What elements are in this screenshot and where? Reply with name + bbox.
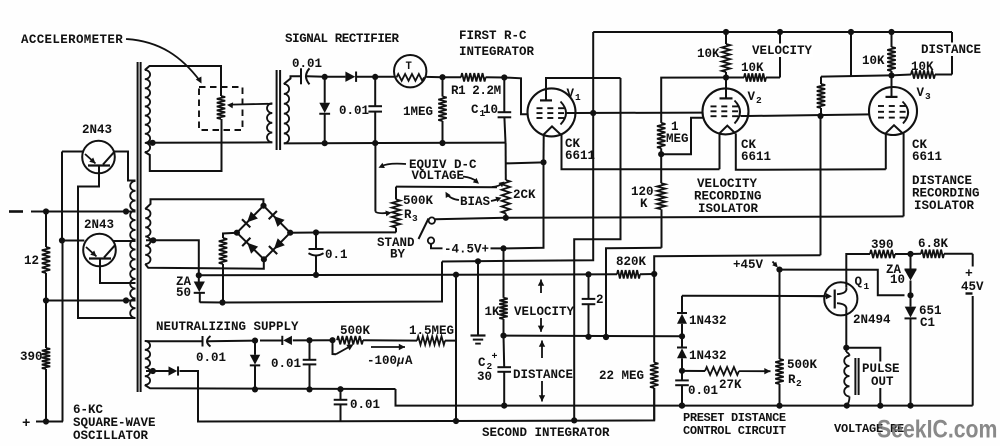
svg-text:FIRST R-C: FIRST R-C [459, 29, 527, 43]
svg-text:2N43: 2N43 [84, 218, 114, 232]
resistor 1.5MEG [417, 336, 445, 344]
svg-text:SeekIC.com: SeekIC.com [877, 415, 997, 443]
wire 456 vertical to 1.5MEG [455, 275, 457, 421]
capacitor 0.01 shunt2 [374, 77, 376, 106]
node cap2 bottom [585, 334, 591, 340]
svg-text:+45V: +45V [733, 258, 764, 272]
svg-text:500K: 500K [787, 358, 818, 372]
wire minus terminal stub [9, 210, 23, 213]
arrow bias line into 2CK top [492, 183, 503, 187]
node -4.5/1K [500, 245, 506, 251]
node bus217 2CK [503, 215, 509, 221]
wire V3 lead2 to bus217 [903, 133, 905, 216]
pulse out labels [861, 362, 902, 376]
svg-text:R1 2.2M: R1 2.2M [451, 84, 501, 98]
velocity annotation arrows [540, 280, 542, 294]
wire V2 plate to V3 grid [748, 114, 870, 116]
wire q1 base runup [682, 295, 825, 297]
wire 654 vertical [653, 274, 655, 337]
svg-text:10K: 10K [911, 60, 934, 74]
node bus275/456 [453, 272, 459, 278]
resistor 1MEG shunt [442, 77, 444, 96]
resistor 6.8K [921, 250, 944, 258]
transformer T1 winding accelerometer drive [145, 70, 150, 152]
svg-text:1N432: 1N432 [689, 349, 727, 363]
svg-text:VELOCITY: VELOCITY [752, 44, 813, 58]
svg-text:0.01: 0.01 [271, 357, 301, 371]
node 820K left [585, 271, 591, 277]
node 1MEG bottom [658, 151, 664, 157]
wire bus217 long [506, 216, 904, 217]
svg-text:R: R [404, 208, 412, 222]
diode bridge bottom-left [247, 243, 258, 254]
node on bottom line [322, 140, 328, 146]
wire winding tap to rectifier transformer [146, 141, 272, 143]
wire V1 cathode lead [543, 136, 545, 163]
svg-text:+: + [492, 352, 498, 363]
node 651 bottom [907, 403, 913, 409]
wire V2 plate cap [725, 78, 727, 99]
svg-text:-100: -100 [367, 354, 397, 368]
node R2 bottom [776, 403, 782, 409]
node 309 top [306, 337, 312, 343]
wire R3 bottom [316, 231, 396, 233]
node 390/6.8K [907, 251, 913, 257]
node 1K/C2 [500, 333, 506, 339]
resistor 820K [589, 273, 618, 275]
svg-text:10K: 10K [697, 47, 720, 61]
transformer T1 left winding [130, 181, 135, 318]
node junction 12/390 [43, 297, 49, 303]
svg-text:C: C [471, 103, 479, 117]
svg-text:ACCELEROMETER: ACCELEROMETER [21, 33, 123, 47]
wire switch common to bus217 [435, 218, 506, 219]
svg-text:22 MEG: 22 MEG [599, 369, 644, 383]
node V1 plate/bus [590, 110, 596, 116]
svg-text:390: 390 [871, 238, 894, 252]
svg-text:2N494: 2N494 [853, 313, 891, 327]
wire left column vertical [62, 241, 64, 422]
node junction at plus terminal [43, 418, 49, 424]
svg-text:MEG: MEG [666, 132, 689, 146]
node line336/604 [603, 334, 609, 340]
svg-text:+: + [22, 416, 30, 432]
svg-text:DISTANCE: DISTANCE [921, 43, 981, 57]
wire 820K node to V2 plate dropper [654, 255, 820, 273]
node bus302/resistor [219, 299, 225, 305]
wire ZA50 bottom to bus [200, 301, 223, 303]
svg-text:6611: 6611 [565, 149, 595, 163]
node bridge bottom [261, 256, 267, 262]
diode bridge top-left [247, 212, 258, 223]
wire tee to cathode junction [506, 162, 544, 163]
diode 1N432 lower [681, 336, 683, 348]
potentiometer 500K R3 [395, 228, 397, 233]
svg-text:2: 2 [796, 378, 802, 389]
wire distance takeoff [951, 32, 953, 75]
wire grid feed [504, 78, 528, 115]
tube V3 envelope [869, 87, 917, 135]
Q1 emitter arrow [789, 295, 826, 297]
svg-text:OSCILLATOR: OSCILLATOR [73, 429, 149, 443]
node bridge right [287, 230, 293, 236]
svg-text:INTEGRATOR: INTEGRATOR [459, 45, 535, 59]
diode bridge top-right [274, 216, 285, 227]
thermistor T circle [394, 55, 426, 87]
svg-text:A: A [405, 354, 413, 368]
resistor 10K distance out [911, 70, 935, 78]
wire minus line to winding [31, 211, 136, 213]
Q1 B1 lead [837, 303, 846, 310]
node ground stem [475, 258, 481, 264]
distance label [920, 43, 983, 57]
wire accelerometer winding bottom [145, 119, 222, 171]
svg-text:NEUTRALIZING SUPPLY: NEUTRALIZING SUPPLY [156, 320, 299, 334]
resistor 10K V2 plate [725, 32, 727, 44]
wiper arrow into R3 [375, 212, 389, 214]
wire winding top to bridge top [145, 199, 263, 209]
V3 cathode wedge [886, 125, 903, 133]
node R1 left [439, 74, 445, 80]
node winding tap 300 [123, 297, 129, 303]
wire 851 stub [850, 32, 852, 76]
svg-text:BY: BY [390, 248, 406, 262]
node winding tap 211 [123, 208, 129, 214]
wire C1 bottom to cathode node chain [504, 117, 505, 142]
wire rectifier bottom line [284, 142, 506, 145]
svg-text:2: 2 [596, 293, 604, 307]
V2 cathode wedge [719, 126, 735, 134]
wire -4.5 to V1 cathode [504, 162, 544, 248]
wire V2 cathode lead [719, 134, 721, 169]
svg-text:T: T [406, 61, 413, 73]
node bus 10K V3 [888, 29, 894, 35]
svg-text:-4.5V+: -4.5V+ [444, 243, 489, 257]
capacitor 0.01 neutralizing series [202, 336, 204, 347]
label -4.5V+ [443, 242, 491, 256]
svg-text:0.01: 0.01 [339, 104, 369, 118]
svg-text:Q: Q [855, 275, 863, 289]
svg-text:6-KC: 6-KC [73, 403, 104, 417]
potentiometer 500K R2 [775, 359, 783, 384]
resistor 27K [682, 370, 705, 372]
node bridge left [234, 230, 240, 236]
node pulse top [843, 345, 849, 351]
transformer T1 winding neutralizing [145, 341, 150, 385]
svg-text:3: 3 [925, 91, 931, 102]
node 10K junction V3 [888, 72, 894, 78]
wire left winding top wiper line [268, 103, 272, 105]
svg-text:390: 390 [20, 350, 43, 364]
node 500K left [329, 337, 335, 343]
wire line336 [504, 335, 683, 338]
resistor 22MEG [653, 337, 655, 363]
svg-text:OUT: OUT [871, 375, 894, 389]
node 27K [679, 368, 685, 374]
svg-text:V: V [748, 90, 756, 104]
switch blade [419, 219, 429, 240]
svg-text:R: R [788, 373, 796, 387]
battery 45V [972, 254, 974, 267]
transistor Q1 2N494 [824, 282, 857, 315]
capacitor 0.01 preset [681, 371, 683, 381]
node zener mid [907, 292, 913, 298]
wire bus261 [442, 113, 593, 262]
svg-text:SECOND INTEGRATOR: SECOND INTEGRATOR [482, 426, 610, 440]
wire lower 2N43 emitter lead [100, 259, 136, 284]
Q1 B2 lead [837, 288, 846, 294]
diode 1N432 upper [677, 314, 687, 324]
wire 820 vertical [820, 116, 822, 255]
svg-text:10: 10 [483, 103, 498, 117]
resistor 120K [660, 154, 662, 183]
svg-text:1N432: 1N432 [689, 314, 727, 328]
wire +45 to zener node [780, 270, 905, 296]
svg-text:ISOLATOR: ISOLATOR [914, 199, 975, 213]
wire 1.5MEG right up [445, 300, 456, 341]
svg-text:V: V [917, 86, 925, 100]
wire Q1 collector up [846, 254, 870, 288]
node pulse bottom left [844, 403, 850, 409]
accelerometer dashed box [199, 87, 243, 130]
svg-text:2CK: 2CK [513, 188, 536, 202]
node rect input [322, 74, 328, 80]
wire bus275 [199, 273, 589, 276]
svg-text:1K: 1K [485, 305, 501, 319]
node 255 [252, 338, 258, 344]
svg-text:ISOLATOR: ISOLATOR [698, 202, 759, 216]
transformer T2 core [276, 70, 278, 150]
wire T2 secondary top [284, 76, 300, 84]
svg-text:SIGNAL RECTIFIER: SIGNAL RECTIFIER [285, 32, 400, 46]
svg-text:C: C [478, 356, 486, 370]
node bus velocity [777, 29, 783, 35]
transformer T1 core [137, 62, 139, 392]
capacitor 0.01 309 [309, 340, 311, 360]
arrow equiv to wire [381, 164, 407, 167]
node 0.1 bottom on bus [313, 272, 319, 278]
capacitor C2 30 [503, 336, 506, 368]
capacitor 0.01 340 [340, 389, 342, 400]
wire bus y302 to 442 corner [223, 262, 443, 303]
node 1N432 top [679, 333, 685, 339]
wire plus terminal bus [36, 421, 63, 423]
arrow bias-left [447, 194, 460, 201]
diode series neutralizing [283, 336, 292, 345]
node bus421/456 [453, 418, 459, 424]
node winding tap 371 [150, 368, 156, 374]
node 2N43 base node [59, 237, 65, 243]
wire 1MEG to V2 inner grid [661, 118, 703, 155]
diode 651 C1 [910, 295, 912, 306]
wire V3 plate cap [891, 75, 893, 97]
resistor bridge-left unlabeled [223, 233, 237, 238]
wire 2N43 collector to winding [114, 152, 136, 181]
transformer T1 winding bridge [145, 209, 150, 264]
svg-text:10K: 10K [862, 54, 885, 68]
node 0.1 top [313, 229, 319, 235]
rectifier bridge [237, 206, 264, 233]
node winding mid tap [150, 237, 156, 243]
resistor 10K velocity out [744, 73, 766, 81]
resistor 10K V3 [891, 32, 893, 47]
diode oscillator output [146, 370, 169, 372]
svg-text:BIAS: BIAS [460, 195, 491, 209]
pulse transformer winding [845, 348, 847, 352]
svg-text:0.01: 0.01 [196, 351, 226, 365]
capacitor C1 10 [503, 78, 505, 113]
wire -4.5V line [431, 244, 504, 249]
svg-text:SQUARE-WAVE: SQUARE-WAVE [73, 416, 156, 430]
wire to bridge right [290, 232, 316, 234]
svg-text:PRESET DISTANCE: PRESET DISTANCE [683, 411, 786, 425]
svg-text:10: 10 [890, 273, 905, 287]
wire equiv dc voltage tap [374, 145, 376, 212]
svg-text:27K: 27K [719, 378, 742, 392]
wire V1 lead2 [562, 134, 720, 169]
wire pulse out right [846, 348, 880, 406]
node accelerometer winding tap [150, 140, 156, 146]
svg-text:VOLTAGE: VOLTAGE [412, 169, 465, 183]
svg-text:DISTANCE: DISTANCE [513, 368, 573, 382]
zener ZA10 [910, 254, 912, 269]
svg-text:0.1: 0.1 [325, 248, 348, 262]
wire bias line [396, 186, 497, 189]
svg-text:C1: C1 [920, 316, 935, 330]
node shunt2 bottom [372, 140, 378, 146]
resistor 12 [45, 212, 47, 248]
svg-text:1MEG: 1MEG [403, 105, 433, 119]
node 0.01 bottom [679, 403, 685, 409]
tube V1 envelope [528, 88, 576, 136]
node bridge top [260, 203, 266, 209]
wire to 1.5MEG [363, 339, 417, 341]
wire to thermistor [375, 76, 394, 78]
wire neutralizing top [145, 340, 202, 342]
ground symbol [477, 261, 479, 335]
node R1 right / C1 top [501, 74, 507, 80]
resistor V2 plate load [821, 75, 892, 76]
wire top bus [593, 31, 952, 33]
V2 grid dashes [711, 105, 717, 107]
svg-text:K: K [640, 197, 648, 211]
svg-text:0.01: 0.01 [350, 398, 380, 412]
V3 grid dashes [878, 105, 884, 107]
diode bridge bottom-right [274, 238, 285, 249]
diode series signal [345, 72, 355, 82]
svg-text:6611: 6611 [741, 150, 771, 164]
svg-text:V: V [567, 87, 575, 101]
svg-text:500K: 500K [340, 324, 371, 338]
zener ZA50 [198, 275, 200, 281]
wire 1N432 column top [681, 296, 683, 314]
node junction -12V [43, 208, 49, 214]
node 820K right [651, 271, 657, 277]
svg-text:0.01: 0.01 [292, 57, 322, 71]
node pulse bottom right [877, 403, 883, 409]
wire diode wires [260, 340, 282, 342]
node V1 cathode junction [540, 159, 546, 165]
node 10K junction V2 [723, 74, 729, 80]
svg-text:1: 1 [864, 281, 870, 292]
svg-text:3: 3 [412, 213, 418, 224]
wire tap 300 to winding [46, 300, 136, 302]
svg-text:0.01: 0.01 [688, 384, 718, 398]
svg-text:CONTROL CIRCUIT: CONTROL CIRCUIT [683, 424, 786, 438]
svg-text:6611: 6611 [912, 150, 942, 164]
node 0.01 shunt 2 [372, 74, 378, 80]
wire after cap [208, 340, 255, 343]
wire to series diode [325, 76, 346, 78]
wire Q1 B1 to pulse transformer [845, 310, 847, 348]
node 309/389 [306, 386, 312, 392]
capacitor 2 [588, 274, 590, 299]
wire C1 bottom to 163 tee [505, 143, 507, 180]
svg-text:PULSE: PULSE [862, 362, 900, 376]
node bus/10K V2 [723, 29, 729, 35]
wire velocity takeoff [779, 32, 781, 78]
wire jog 389-405 [396, 389, 973, 406]
node V2 plate dropper [817, 113, 823, 119]
svg-text:500K: 500K [403, 194, 434, 208]
tube V2 envelope [703, 88, 749, 134]
node +45V [776, 267, 782, 273]
wire 120K bottom runaround [606, 248, 662, 337]
wire thermistor out [426, 76, 442, 78]
resistor 1MEG V2 grid leak [661, 78, 726, 123]
velocity label top [751, 44, 814, 58]
node C2bottom... bus dots [679, 403, 685, 409]
wire V1 plate line to V2 grid [575, 112, 702, 114]
transformer T2 right winding [284, 84, 289, 143]
V3 plate arc [903, 102, 909, 124]
resistor 1K [503, 248, 505, 297]
wire mid tap to ZA50 [146, 240, 199, 275]
capacitor 0.1 [315, 233, 317, 250]
svg-text:45V: 45V [961, 280, 984, 294]
distance annotation arrows [541, 341, 543, 359]
node 1MEG bottom [439, 140, 445, 146]
svg-text:6.8K: 6.8K [918, 237, 949, 251]
svg-text:820K: 820K [616, 255, 647, 269]
svg-text:+: + [965, 266, 973, 281]
node 340/389 [337, 386, 343, 392]
node ZA50 top [196, 272, 202, 278]
accelerometer pointer arrow [126, 39, 200, 81]
wiper arrow accelerometer [231, 103, 268, 106]
wire diode to bottom bus [180, 371, 341, 422]
svg-text:1: 1 [575, 92, 581, 103]
potentiometer accelerometer pickoff [217, 96, 225, 119]
transformer T2 left winding [267, 103, 272, 142]
Q1 base bar [834, 290, 836, 309]
arrow 27K to R2 [739, 370, 771, 372]
wire topcap runaround [574, 78, 620, 420]
pulse transformer core [854, 358, 856, 395]
resistor 390 [45, 301, 47, 349]
arrow voltage to bias line [463, 177, 478, 183]
wiper 500K [333, 340, 337, 354]
wire 2N43 emitter lead [78, 166, 136, 319]
svg-text:10K: 10K [741, 61, 764, 75]
svg-text:1.5MEG: 1.5MEG [409, 324, 454, 338]
diode 255 column [254, 341, 256, 355]
V1 top cap [540, 99, 552, 101]
V2 plate arc [735, 101, 741, 124]
wire winding bottom to bridge bottom [145, 259, 264, 268]
node bus 851 [848, 29, 854, 35]
wire V3 cathode lead [885, 134, 887, 170]
